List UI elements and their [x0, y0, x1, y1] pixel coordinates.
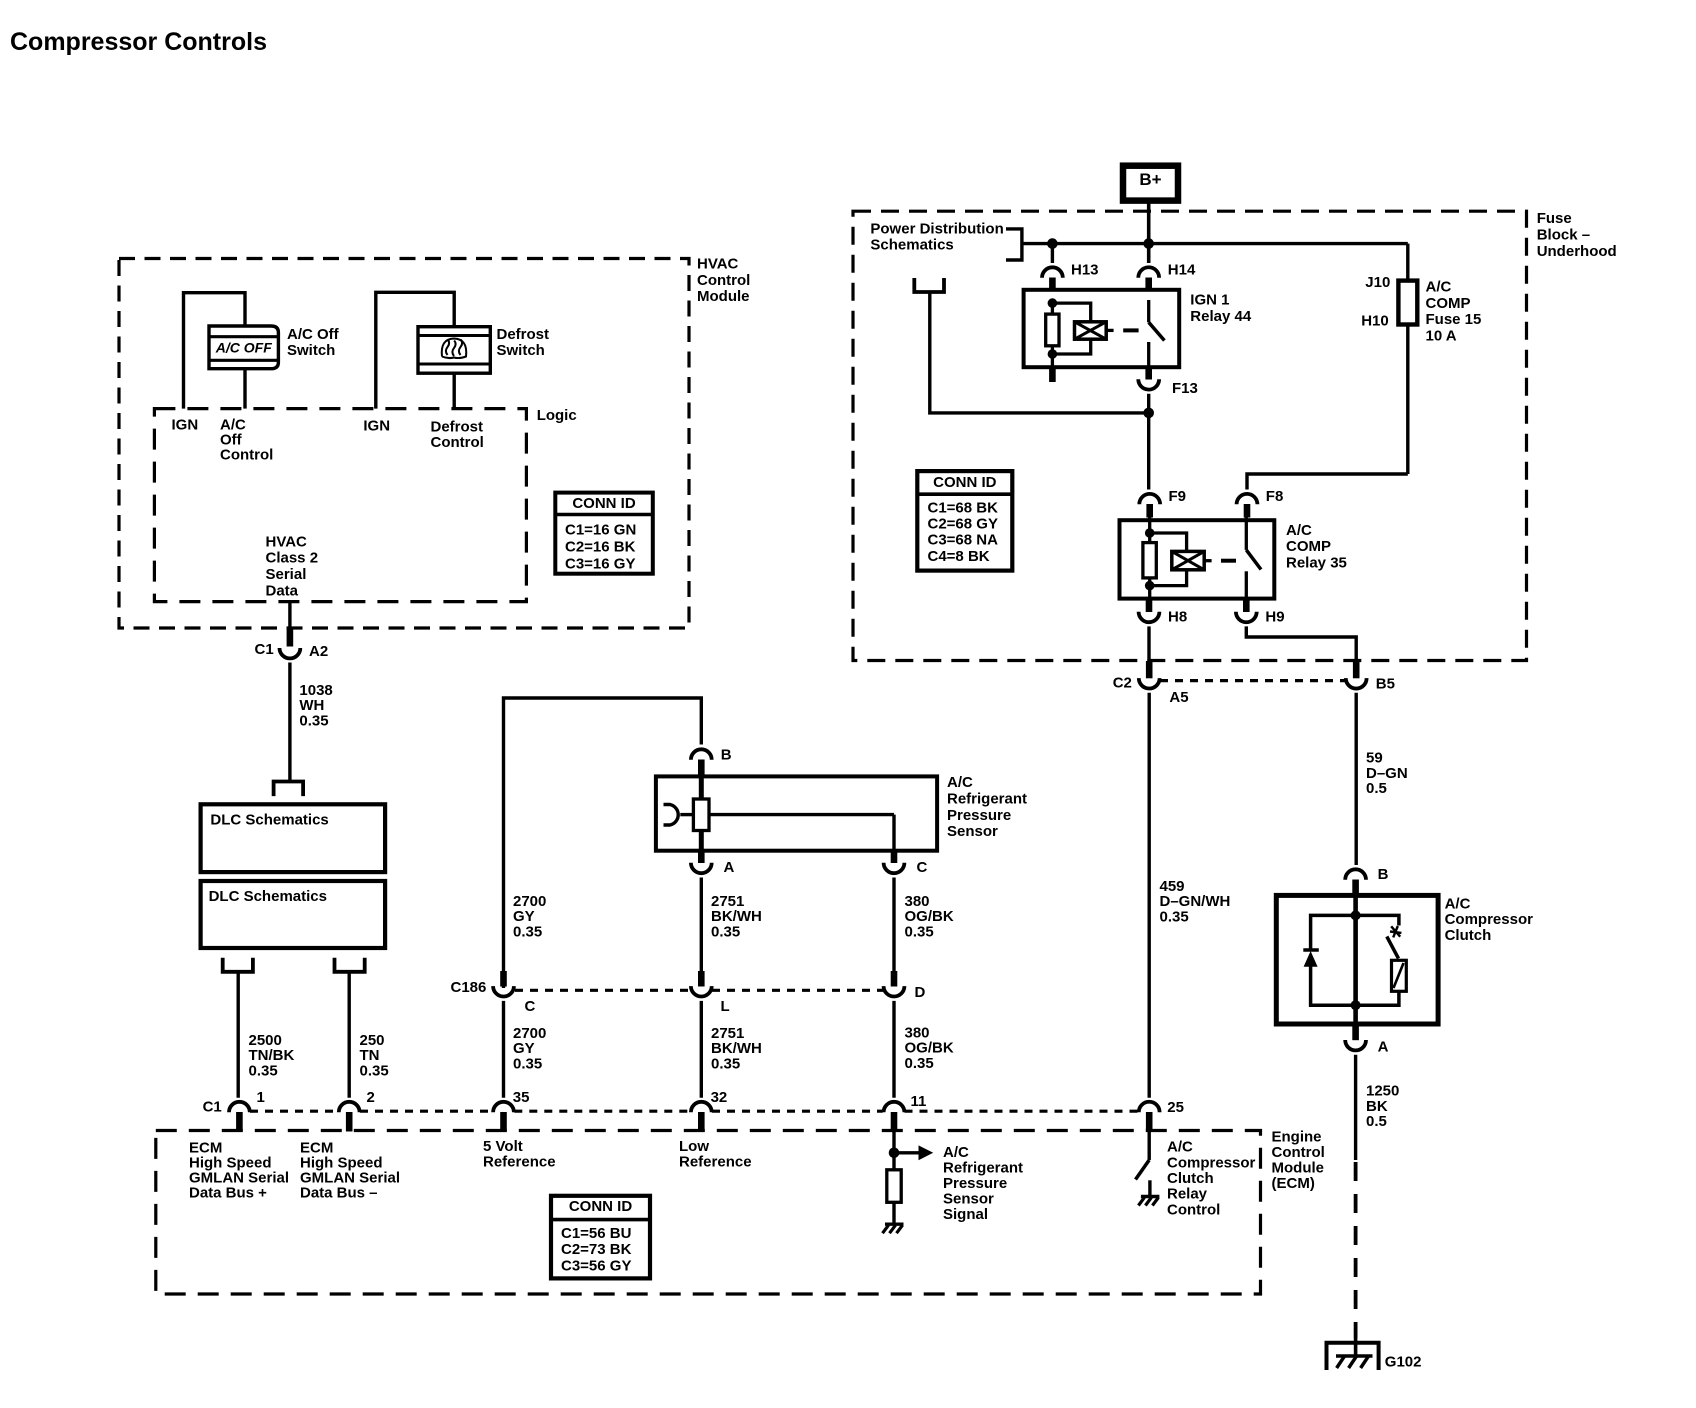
- svg-text:A2: A2: [309, 643, 328, 660]
- svg-text:HVAC: HVAC: [697, 256, 739, 273]
- relay 35 coil circuit: [1148, 518, 1151, 543]
- svg-text:A/C: A/C: [943, 1144, 969, 1161]
- svg-text:Switch: Switch: [497, 342, 545, 359]
- in-line connector above DLC: [274, 782, 304, 797]
- relay 44 switch: [1147, 300, 1150, 322]
- svg-text:DLC Schematics: DLC Schematics: [210, 811, 328, 828]
- CONN ID table (HVAC): [555, 493, 653, 574]
- DLC Schematics box 1: [201, 804, 386, 872]
- connector A (clutch): [1352, 1024, 1359, 1040]
- A/C compressor clutch relay control switch: [1147, 1132, 1150, 1161]
- svg-text:Clutch: Clutch: [1167, 1170, 1214, 1187]
- svg-text:0.5: 0.5: [1366, 1113, 1387, 1130]
- svg-text:F13: F13: [1172, 380, 1198, 397]
- connector C1/A2: [287, 627, 294, 647]
- A/C Compressor Clutch box: [1276, 895, 1438, 1024]
- svg-text:C: C: [525, 998, 536, 1015]
- svg-text:A: A: [724, 859, 735, 876]
- wire H8 to C2: [1147, 626, 1150, 663]
- connector F8: [1237, 494, 1258, 504]
- wire 250 TN 0.35: [348, 972, 351, 1098]
- connector H8: [1146, 599, 1153, 612]
- svg-text:Defrost: Defrost: [431, 418, 484, 435]
- svg-text:Relay 44: Relay 44: [1190, 308, 1252, 325]
- connector C186 pin L: [698, 971, 705, 987]
- svg-text:32: 32: [711, 1089, 728, 1106]
- svg-text:Switch: Switch: [287, 342, 335, 359]
- wire A/C Off switch to logic: [243, 369, 246, 409]
- svg-text:Signal: Signal: [943, 1206, 988, 1223]
- connector pin 35: [493, 1102, 514, 1112]
- svg-text:COMP: COMP: [1426, 295, 1471, 312]
- svg-text:Underhood: Underhood: [1537, 243, 1617, 260]
- svg-text:B: B: [721, 747, 732, 764]
- svg-text:Relay: Relay: [1167, 1186, 1208, 1203]
- svg-text:H13: H13: [1071, 261, 1099, 278]
- svg-text:C4=8 BK: C4=8 BK: [928, 548, 990, 565]
- connector A (sensor): [698, 851, 705, 863]
- svg-text:CONN ID: CONN ID: [933, 474, 997, 491]
- svg-text:Control: Control: [1167, 1201, 1220, 1218]
- svg-text:A/C: A/C: [1445, 895, 1471, 912]
- svg-text:C186: C186: [451, 979, 487, 996]
- svg-text:C2=73 BK: C2=73 BK: [561, 1241, 632, 1258]
- relay 44 coil stub pin: [1049, 367, 1056, 382]
- svg-text:0.35: 0.35: [711, 1055, 740, 1072]
- svg-text:Class 2: Class 2: [266, 550, 319, 567]
- svg-text:C1=16 GN: C1=16 GN: [565, 521, 636, 538]
- wire 1038 WH 0.35: [288, 663, 291, 782]
- svg-text:0.35: 0.35: [513, 1055, 542, 1072]
- svg-text:2: 2: [367, 1089, 375, 1106]
- clutch main line: [1353, 895, 1358, 1024]
- B+ battery feed: [1123, 166, 1178, 201]
- svg-text:IGN: IGN: [363, 417, 390, 434]
- svg-text:Pressure: Pressure: [947, 807, 1011, 824]
- relay 44 solenoid: [1075, 322, 1107, 339]
- svg-text:C3=56 GY: C3=56 GY: [561, 1258, 631, 1275]
- relay 44 coil: [1046, 314, 1059, 346]
- svg-text:C3=16 GY: C3=16 GY: [565, 555, 635, 572]
- wire 2751 BK/WH 0.35 (upper): [700, 878, 703, 973]
- connector H14: [1138, 267, 1159, 277]
- svg-text:C2=68 GY: C2=68 GY: [928, 516, 998, 533]
- svg-text:0.35: 0.35: [249, 1062, 278, 1079]
- wire IGN loop to A/C Off switch: [184, 293, 246, 409]
- svg-text:Data Bus –: Data Bus –: [300, 1184, 378, 1201]
- Defrost switch S2: [418, 327, 490, 374]
- junction dot F13/cup: [1143, 408, 1154, 419]
- svg-text:Logic: Logic: [537, 407, 577, 424]
- connector F9: [1139, 494, 1160, 504]
- svg-text:A: A: [1378, 1039, 1389, 1056]
- svg-text:Power Distribution: Power Distribution: [870, 220, 1003, 237]
- svg-text:H8: H8: [1168, 608, 1187, 625]
- wire 2700 GY 0.35 (lower): [502, 1001, 505, 1098]
- connector pin 32: [691, 1102, 712, 1112]
- svg-text:0.35: 0.35: [711, 923, 740, 940]
- svg-text:Compressor: Compressor: [1445, 911, 1534, 928]
- svg-text:HVAC: HVAC: [266, 533, 308, 550]
- wire 1250 BK 0.5: [1354, 1055, 1357, 1160]
- wire tap to H13: [1051, 244, 1054, 263]
- connector B5: [1353, 661, 1360, 678]
- svg-text:Block –: Block –: [1537, 227, 1590, 244]
- clutch resistor (variable): [1392, 960, 1407, 991]
- svg-text:C2=16 BK: C2=16 BK: [565, 538, 636, 555]
- in-line connector below DLC (right): [335, 958, 365, 972]
- relay 44 actuation dash: [1106, 329, 1113, 332]
- svg-text:11: 11: [911, 1093, 927, 1110]
- HVAC Control Module dashed box: [119, 259, 689, 629]
- svg-text:A/C OFF: A/C OFF: [215, 339, 272, 355]
- svg-text:B+: B+: [1139, 170, 1161, 189]
- CONN ID table (fuse block): [917, 471, 1012, 570]
- connector pin 25: [1139, 1102, 1160, 1112]
- svg-text:B: B: [1378, 866, 1389, 883]
- clutch diode D1: [1303, 948, 1319, 952]
- svg-text:A/C: A/C: [947, 774, 973, 791]
- svg-text:CONN ID: CONN ID: [572, 495, 636, 512]
- svg-text:C2: C2: [1113, 674, 1132, 691]
- svg-text:J10: J10: [1365, 274, 1390, 291]
- svg-text:C3=68 NA: C3=68 NA: [928, 532, 999, 549]
- svg-text:0.35: 0.35: [1160, 908, 1189, 925]
- wire 5V reference to sensor B: [504, 698, 702, 988]
- svg-text:0.35: 0.35: [299, 712, 328, 729]
- svg-text:Serial: Serial: [266, 566, 307, 583]
- connector C2/A5: [1146, 661, 1153, 678]
- resistor (ECM internal): [887, 1170, 901, 1203]
- svg-text:5 Volt: 5 Volt: [483, 1138, 523, 1155]
- svg-text:0.35: 0.35: [905, 923, 934, 940]
- svg-text:Clutch: Clutch: [1445, 927, 1492, 944]
- svg-text:Control: Control: [431, 434, 484, 451]
- connector pin 11: [884, 1102, 905, 1112]
- DLC Schematics box 2: [201, 881, 386, 948]
- A/C Off switch S1: [209, 326, 278, 369]
- connector H9: [1243, 599, 1250, 612]
- svg-text:0.35: 0.35: [905, 1055, 934, 1072]
- svg-text:F8: F8: [1266, 488, 1284, 505]
- svg-text:L: L: [721, 998, 730, 1015]
- svg-text:A/C: A/C: [1426, 279, 1452, 296]
- svg-text:C1: C1: [255, 641, 274, 658]
- sensor element: [699, 776, 704, 850]
- relay 35 solenoid: [1172, 551, 1204, 569]
- svg-text:Control: Control: [220, 446, 273, 463]
- svg-text:C: C: [917, 859, 928, 876]
- connector C186 pin D: [891, 971, 898, 987]
- svg-text:IGN: IGN: [172, 416, 199, 433]
- svg-text:(ECM): (ECM): [1272, 1175, 1315, 1192]
- svg-text:Low: Low: [679, 1138, 709, 1155]
- clutch parallel loop: [1311, 915, 1399, 950]
- IGN 1 Relay 44 box: [1024, 290, 1180, 367]
- svg-text:CONN ID: CONN ID: [569, 1198, 633, 1215]
- svg-text:25: 25: [1167, 1099, 1184, 1116]
- svg-text:Defrost: Defrost: [497, 326, 550, 343]
- wire to G102 (dashed): [1354, 1162, 1358, 1338]
- connector F13: [1145, 367, 1152, 379]
- A/C Refrigerant Pressure Sensor box: [656, 776, 937, 850]
- ECM connector row dotted line: [250, 1110, 339, 1113]
- svg-text:Fuse 15: Fuse 15: [1426, 311, 1482, 328]
- svg-text:1: 1: [257, 1089, 265, 1106]
- svg-text:Reference: Reference: [679, 1154, 752, 1171]
- connector C (sensor): [891, 851, 898, 863]
- wire fuse to F8: [1247, 474, 1408, 490]
- svg-text:H9: H9: [1265, 608, 1284, 625]
- svg-text:A/C: A/C: [1286, 522, 1312, 539]
- wire 2751 BK/WH 0.35 (lower): [700, 1001, 703, 1098]
- svg-text:Data Bus +: Data Bus +: [189, 1184, 267, 1201]
- svg-text:C1=56 BU: C1=56 BU: [561, 1225, 631, 1242]
- svg-text:Fuse: Fuse: [1537, 210, 1572, 227]
- CONN ID table (ECM): [551, 1196, 650, 1279]
- ground (sensor signal): [885, 1222, 904, 1225]
- svg-text:Pressure: Pressure: [943, 1175, 1007, 1192]
- in-line connector below DLC (left): [223, 958, 253, 972]
- svg-text:35: 35: [513, 1089, 530, 1106]
- continuation cup (power distribution): [914, 278, 944, 292]
- in-line connector C186 row dotted line: [515, 989, 691, 992]
- svg-text:B5: B5: [1376, 676, 1395, 693]
- relay 35 actuation dash: [1204, 559, 1211, 562]
- relay 35 coil: [1143, 543, 1156, 578]
- Fuse Block - Underhood dashed box: [853, 211, 1527, 660]
- svg-text:Schematics: Schematics: [870, 237, 953, 254]
- junction dot B+ crossing: [1143, 238, 1154, 249]
- junction dot H13 tap: [1047, 238, 1058, 249]
- connector C186 pin C: [500, 971, 507, 987]
- connector ECM C1 pin 1: [229, 1102, 250, 1112]
- wire cup to F13 junction: [930, 292, 1149, 413]
- relay 35 switch: [1245, 518, 1248, 550]
- svg-text:Refrigerant: Refrigerant: [943, 1159, 1023, 1176]
- svg-text:Refrigerant: Refrigerant: [947, 790, 1027, 807]
- wire 380 OG/BK 0.35 (upper): [892, 878, 895, 973]
- Engine Control Module dashed box: [156, 1131, 1261, 1295]
- connector pin 2: [339, 1102, 360, 1112]
- svg-text:Engine: Engine: [1272, 1128, 1322, 1145]
- svg-text:Module: Module: [697, 288, 750, 305]
- wire Defrost switch to logic: [453, 373, 456, 408]
- svg-text:0.5: 0.5: [1366, 780, 1387, 797]
- fuse J10/H10 A/C COMP Fuse 15: [1406, 244, 1409, 281]
- svg-text:0.35: 0.35: [360, 1062, 389, 1079]
- svg-text:C1=68 BK: C1=68 BK: [928, 500, 999, 517]
- connector H13: [1042, 267, 1063, 277]
- ground (relay control): [1141, 1195, 1160, 1198]
- wire B+ to H14: [1147, 201, 1151, 263]
- svg-text:Relay 35: Relay 35: [1286, 554, 1347, 571]
- svg-text:Sensor: Sensor: [947, 823, 998, 840]
- svg-text:Sensor: Sensor: [943, 1191, 994, 1208]
- svg-text:Reference: Reference: [483, 1154, 556, 1171]
- Logic dashed box: [154, 409, 526, 602]
- svg-text:G102: G102: [1385, 1354, 1422, 1371]
- svg-text:IGN 1: IGN 1: [1190, 292, 1229, 309]
- A/C refrigerant pressure sensor signal branch: [892, 1132, 895, 1170]
- A/C COMP Relay 35 box: [1120, 520, 1275, 598]
- wire serial data to connector C1/A2: [288, 602, 291, 629]
- svg-text:COMP: COMP: [1286, 538, 1331, 555]
- svg-text:Control: Control: [697, 272, 750, 289]
- inline dotted link C2-B5: [1160, 679, 1346, 682]
- svg-text:10 A: 10 A: [1426, 328, 1457, 345]
- wire IGN loop to Defrost switch: [376, 292, 454, 408]
- bracket from power distribution: [1006, 229, 1022, 260]
- wire 380 OG/BK 0.35 (lower): [892, 1001, 895, 1098]
- svg-text:H14: H14: [1168, 261, 1196, 278]
- ground G102: [1327, 1343, 1379, 1370]
- wire 2500 TN/BK 0.35: [236, 972, 239, 1098]
- svg-text:A/C Off: A/C Off: [287, 326, 340, 343]
- svg-text:Data: Data: [266, 583, 299, 600]
- wire H9 to B5: [1246, 626, 1356, 663]
- wire F13 to F9: [1147, 394, 1150, 490]
- svg-text:Module: Module: [1272, 1160, 1325, 1177]
- svg-text:A5: A5: [1169, 689, 1188, 706]
- svg-text:Control: Control: [1272, 1144, 1325, 1161]
- wire power distribution bus: [1022, 242, 1408, 245]
- clutch switch with star: [1390, 926, 1401, 937]
- svg-text:Compressor Controls: Compressor Controls: [10, 28, 267, 56]
- connector B (clutch): [1345, 869, 1366, 879]
- svg-text:0.35: 0.35: [513, 923, 542, 940]
- wire 59 D-GN 0.5: [1354, 693, 1357, 865]
- svg-text:H10: H10: [1361, 312, 1389, 329]
- wire 459 D-GN/WH 0.35: [1147, 693, 1150, 1098]
- svg-text:D: D: [915, 984, 926, 1001]
- svg-text:DLC Schematics: DLC Schematics: [209, 888, 327, 905]
- svg-text:F9: F9: [1169, 488, 1187, 505]
- svg-text:Compressor: Compressor: [1167, 1154, 1256, 1171]
- svg-text:A/C: A/C: [1167, 1139, 1193, 1156]
- svg-text:C1: C1: [203, 1098, 222, 1115]
- relay 44 coil circuit: [1051, 300, 1054, 314]
- connector B (sensor): [691, 749, 712, 759]
